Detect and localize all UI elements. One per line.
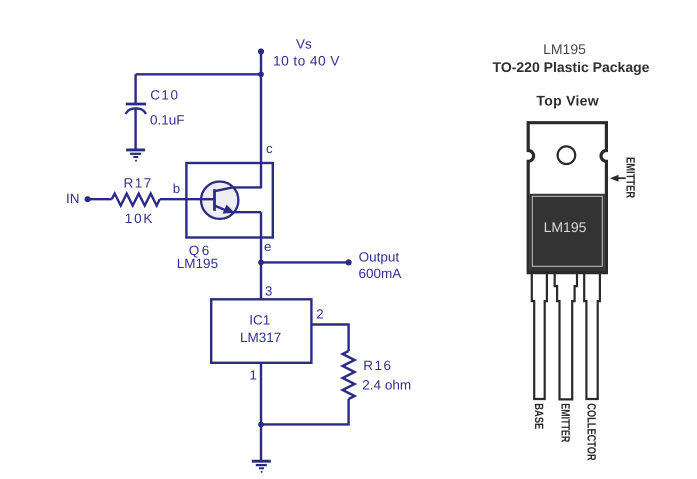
- svg-text:LM317: LM317: [240, 330, 281, 345]
- svg-text:Output: Output: [359, 250, 400, 265]
- transistor Q6 outline box: [186, 163, 272, 238]
- svg-text:2: 2: [316, 307, 323, 322]
- transistor Q6: [201, 182, 261, 219]
- TO-220 body inner line: [532, 196, 602, 266]
- ground bottom: [252, 461, 271, 473]
- resistor R16: [343, 351, 355, 399]
- svg-text:EMITTER: EMITTER: [559, 403, 573, 442]
- emitter tab arrow: [610, 175, 626, 182]
- wire IN to R17: [88, 198, 112, 200]
- svg-text:TO-220 Plastic Package: TO-220 Plastic Package: [493, 59, 650, 75]
- svg-text:R16: R16: [363, 358, 392, 373]
- wire R17 to base: [160, 198, 215, 200]
- junction dot at Vs branch: [258, 71, 264, 77]
- svg-text:c: c: [266, 141, 273, 156]
- wire emitter down to IC1: [260, 212, 262, 299]
- TO-220 body: [530, 194, 605, 271]
- node Output terminal dot: [346, 259, 352, 265]
- wire to Output: [261, 261, 349, 263]
- resistor R17: [112, 194, 160, 206]
- wire Vs vertical to collector: [260, 52, 262, 189]
- TO-220 pin 2 lead: [555, 270, 577, 399]
- TO-220 tab outline with notches: [528, 123, 606, 273]
- svg-text:e: e: [264, 239, 271, 254]
- svg-text:2.4 ohm: 2.4 ohm: [362, 377, 411, 392]
- wire pin 2 to R16: [311, 325, 348, 352]
- wire C10 top lead: [134, 74, 136, 103]
- svg-text:Top View: Top View: [536, 93, 599, 109]
- svg-text:1: 1: [250, 368, 257, 383]
- svg-text:BASE: BASE: [532, 403, 546, 429]
- svg-text:0.1uF: 0.1uF: [150, 113, 185, 128]
- svg-text:Vs: Vs: [296, 37, 312, 52]
- svg-text:IN: IN: [66, 191, 80, 206]
- svg-text:IC1: IC1: [249, 313, 270, 328]
- svg-text:3: 3: [265, 284, 272, 299]
- node Vs terminal dot: [258, 48, 264, 54]
- svg-text:LM195: LM195: [544, 219, 587, 235]
- svg-text:10K: 10K: [125, 211, 154, 226]
- node IN terminal dot: [85, 196, 91, 202]
- svg-text:COLLECTOR: COLLECTOR: [585, 403, 599, 461]
- svg-text:C10: C10: [150, 88, 179, 103]
- wire pin 1 down: [260, 363, 262, 461]
- svg-text:R17: R17: [124, 176, 153, 191]
- svg-text:10 to 40 V: 10 to 40 V: [273, 54, 340, 69]
- TO-220 pin 1 lead: [532, 270, 547, 399]
- svg-text:LM195: LM195: [543, 41, 586, 57]
- op-amp IC1 box: [211, 299, 311, 363]
- TO-220 mounting hole: [558, 146, 576, 164]
- ground under C10: [126, 150, 145, 162]
- svg-text:b: b: [173, 181, 180, 196]
- TO-220 pin 3 lead: [584, 270, 600, 399]
- junction dot output branch: [258, 260, 264, 266]
- wire R16 bottom to ground rail: [261, 399, 349, 424]
- wire C10 bottom lead: [134, 110, 136, 150]
- svg-text:LM195: LM195: [177, 256, 218, 271]
- wire horizontal to C10: [136, 73, 261, 75]
- junction dot ground rail: [258, 422, 264, 428]
- svg-text:600mA: 600mA: [359, 266, 402, 281]
- svg-text:EMITTER: EMITTER: [624, 157, 638, 198]
- capacitor C10: [126, 104, 146, 114]
